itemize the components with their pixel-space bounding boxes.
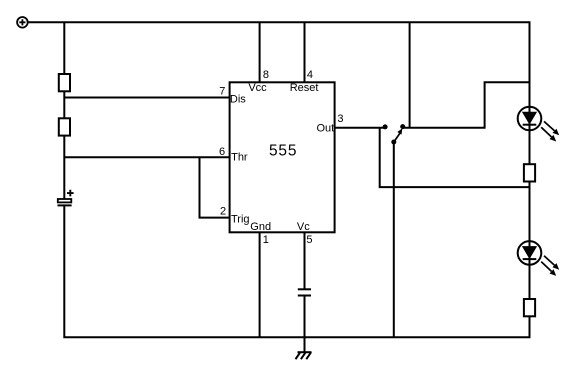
power terminal V+ bbox=[17, 17, 28, 28]
svg-text:5: 5 bbox=[306, 234, 312, 246]
wire Out pin 3 bbox=[335, 127, 386, 129]
wire Thr net to pin 6 bbox=[64, 156, 233, 158]
svg-text:Vc: Vc bbox=[297, 221, 310, 233]
IC U1 555 timer body bbox=[230, 82, 335, 232]
svg-text:Thr: Thr bbox=[231, 151, 248, 163]
wire Dis net to pin 7 bbox=[64, 97, 233, 99]
svg-text:Out: Out bbox=[316, 123, 334, 135]
resistor R4 bbox=[524, 299, 535, 316]
wire top bus V+ bbox=[28, 22, 530, 164]
wire between R1 and R2 bbox=[63, 91, 65, 118]
wire R2 to C1 bbox=[63, 136, 65, 199]
LED D2 bbox=[518, 241, 560, 276]
svg-text:4: 4 bbox=[307, 69, 313, 81]
svg-text:Dis: Dis bbox=[230, 93, 246, 105]
wire switch common down bbox=[393, 142, 395, 337]
wire switch right contact to corner bbox=[403, 82, 530, 128]
svg-text:8: 8 bbox=[263, 69, 269, 81]
wire Trig branch vertical bbox=[200, 157, 234, 217]
pin 4 wire Reset bbox=[304, 22, 306, 82]
svg-text:Reset: Reset bbox=[290, 82, 319, 94]
svg-text:2: 2 bbox=[220, 206, 226, 218]
wire V+ drop to switch bbox=[409, 22, 411, 127]
svg-text:3: 3 bbox=[337, 113, 343, 125]
svg-text:555: 555 bbox=[269, 142, 297, 159]
svg-text:Trig: Trig bbox=[231, 213, 250, 225]
pin 8 wire Vcc bbox=[259, 22, 261, 82]
svg-text:Vcc: Vcc bbox=[248, 82, 267, 94]
capacitor C2 bbox=[298, 289, 311, 295]
resistor R3 bbox=[524, 164, 535, 181]
ground bbox=[296, 352, 312, 359]
wire LED2 to R4 bbox=[529, 241, 531, 299]
wire left rail top bbox=[63, 22, 65, 74]
pin 5 wire Vc bbox=[304, 232, 306, 289]
wire C2 to ground bbox=[304, 296, 306, 353]
svg-text:1: 1 bbox=[263, 234, 269, 246]
svg-text:Gnd: Gnd bbox=[250, 221, 271, 233]
pin 1 wire Gnd bbox=[259, 232, 261, 337]
LED D1 bbox=[518, 107, 560, 142]
resistor R1 bbox=[59, 74, 70, 91]
resistor R2 bbox=[59, 118, 70, 135]
switch SW1 SPDT bbox=[383, 124, 406, 144]
svg-text:7: 7 bbox=[219, 85, 225, 97]
wire R3 to LED2 bbox=[529, 182, 531, 242]
svg-text:6: 6 bbox=[219, 146, 225, 158]
wire C1 to bottom bus bbox=[64, 205, 529, 337]
wire Out branch down bbox=[380, 128, 530, 187]
capacitor C1 polarized bbox=[58, 190, 74, 206]
